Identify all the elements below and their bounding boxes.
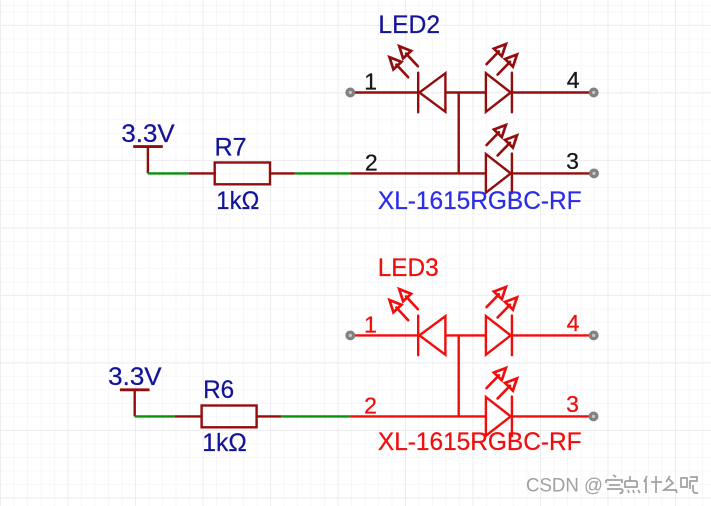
pin R7.2 bbox=[270, 172, 295, 174]
value 1kΩ (R7) bbox=[216, 187, 259, 215]
svg-text:2: 2 bbox=[365, 149, 378, 175]
svg-text:3.3V: 3.3V bbox=[108, 363, 162, 391]
svg-text:1: 1 bbox=[364, 311, 377, 337]
wire 3.3V to R7 bbox=[148, 172, 189, 174]
wire R6 to LED3 pin 2 bbox=[281, 415, 350, 417]
LED2 pin 1 open end bbox=[347, 89, 354, 96]
pin R6.2 bbox=[257, 415, 282, 417]
wire 3.3V to R6 bbox=[135, 415, 175, 417]
LED2 bottom diode bbox=[486, 125, 517, 193]
LED3 pin 2 bbox=[350, 392, 486, 418]
LED2 internal wire (top) bbox=[445, 91, 486, 93]
svg-text:1kΩ: 1kΩ bbox=[202, 429, 247, 457]
wire R7 to LED2 pin 2 bbox=[295, 172, 351, 174]
label R6 bbox=[203, 376, 234, 404]
label LED3 reference bbox=[378, 254, 439, 282]
resistor R7 bbox=[215, 163, 270, 185]
LED3 internal wire (top) bbox=[445, 334, 486, 336]
LED2 pin 3 open end bbox=[591, 170, 598, 177]
svg-text:3: 3 bbox=[566, 148, 579, 174]
LED2 pin 4 bbox=[512, 67, 594, 93]
value 1kΩ (R6) bbox=[202, 429, 247, 457]
LED3 left diode bbox=[390, 289, 446, 355]
power symbol 3.3V (bottom) bbox=[120, 390, 150, 417]
LED2 left diode bbox=[390, 46, 446, 112]
LED2 pin 3 bbox=[512, 148, 594, 174]
svg-text:XL-1615RGBC-RF: XL-1615RGBC-RF bbox=[378, 187, 582, 215]
LED2 common junction wire bbox=[458, 93, 460, 174]
label 3.3V (bottom) bbox=[108, 363, 162, 391]
LED3 top-right diode bbox=[486, 287, 517, 355]
svg-text:3: 3 bbox=[566, 391, 579, 417]
LED2 pin 4 open end bbox=[590, 89, 597, 96]
power symbol 3.3V (top) bbox=[133, 147, 163, 174]
label 3.3V (top) bbox=[121, 120, 175, 148]
label R7 bbox=[215, 134, 247, 162]
svg-text:1: 1 bbox=[364, 68, 377, 94]
LED3 pin 4 open end bbox=[590, 332, 597, 339]
LED2 top-right diode bbox=[486, 44, 517, 112]
svg-text:R6: R6 bbox=[203, 376, 234, 404]
LED3 pin 4 bbox=[512, 310, 594, 336]
svg-text:2: 2 bbox=[364, 392, 377, 418]
LED3 bottom diode bbox=[486, 368, 517, 436]
LED3 pin 1 open end bbox=[347, 332, 354, 339]
LED2 pin 1 bbox=[350, 68, 418, 94]
svg-text:R7: R7 bbox=[215, 134, 247, 162]
value XL-1615RGBC-RF (LED3) bbox=[378, 428, 582, 456]
watermark CSDN @写点什么呢 bbox=[526, 475, 698, 498]
svg-text:LED2: LED2 bbox=[378, 11, 440, 39]
svg-text:LED3: LED3 bbox=[378, 254, 439, 282]
LED3 pin 3 bbox=[512, 391, 594, 417]
LED3 pin 3 open end bbox=[590, 413, 597, 420]
LED3 common junction wire bbox=[458, 335, 460, 416]
svg-text:CSDN @: CSDN @ bbox=[526, 475, 603, 497]
svg-text:3.3V: 3.3V bbox=[121, 120, 175, 148]
svg-text:1kΩ: 1kΩ bbox=[216, 187, 259, 215]
value XL-1615RGBC-RF (LED2) bbox=[378, 187, 582, 215]
resistor R6 bbox=[202, 406, 257, 428]
svg-text:4: 4 bbox=[567, 67, 580, 93]
LED2 pin 2 bbox=[350, 149, 486, 175]
svg-text:4: 4 bbox=[567, 310, 580, 336]
LED3 pin 1 bbox=[350, 311, 418, 337]
label LED2 reference bbox=[378, 11, 440, 39]
svg-text:XL-1615RGBC-RF: XL-1615RGBC-RF bbox=[378, 428, 582, 456]
pin R6.1 bbox=[175, 415, 203, 417]
pin R7.1 bbox=[189, 172, 216, 174]
